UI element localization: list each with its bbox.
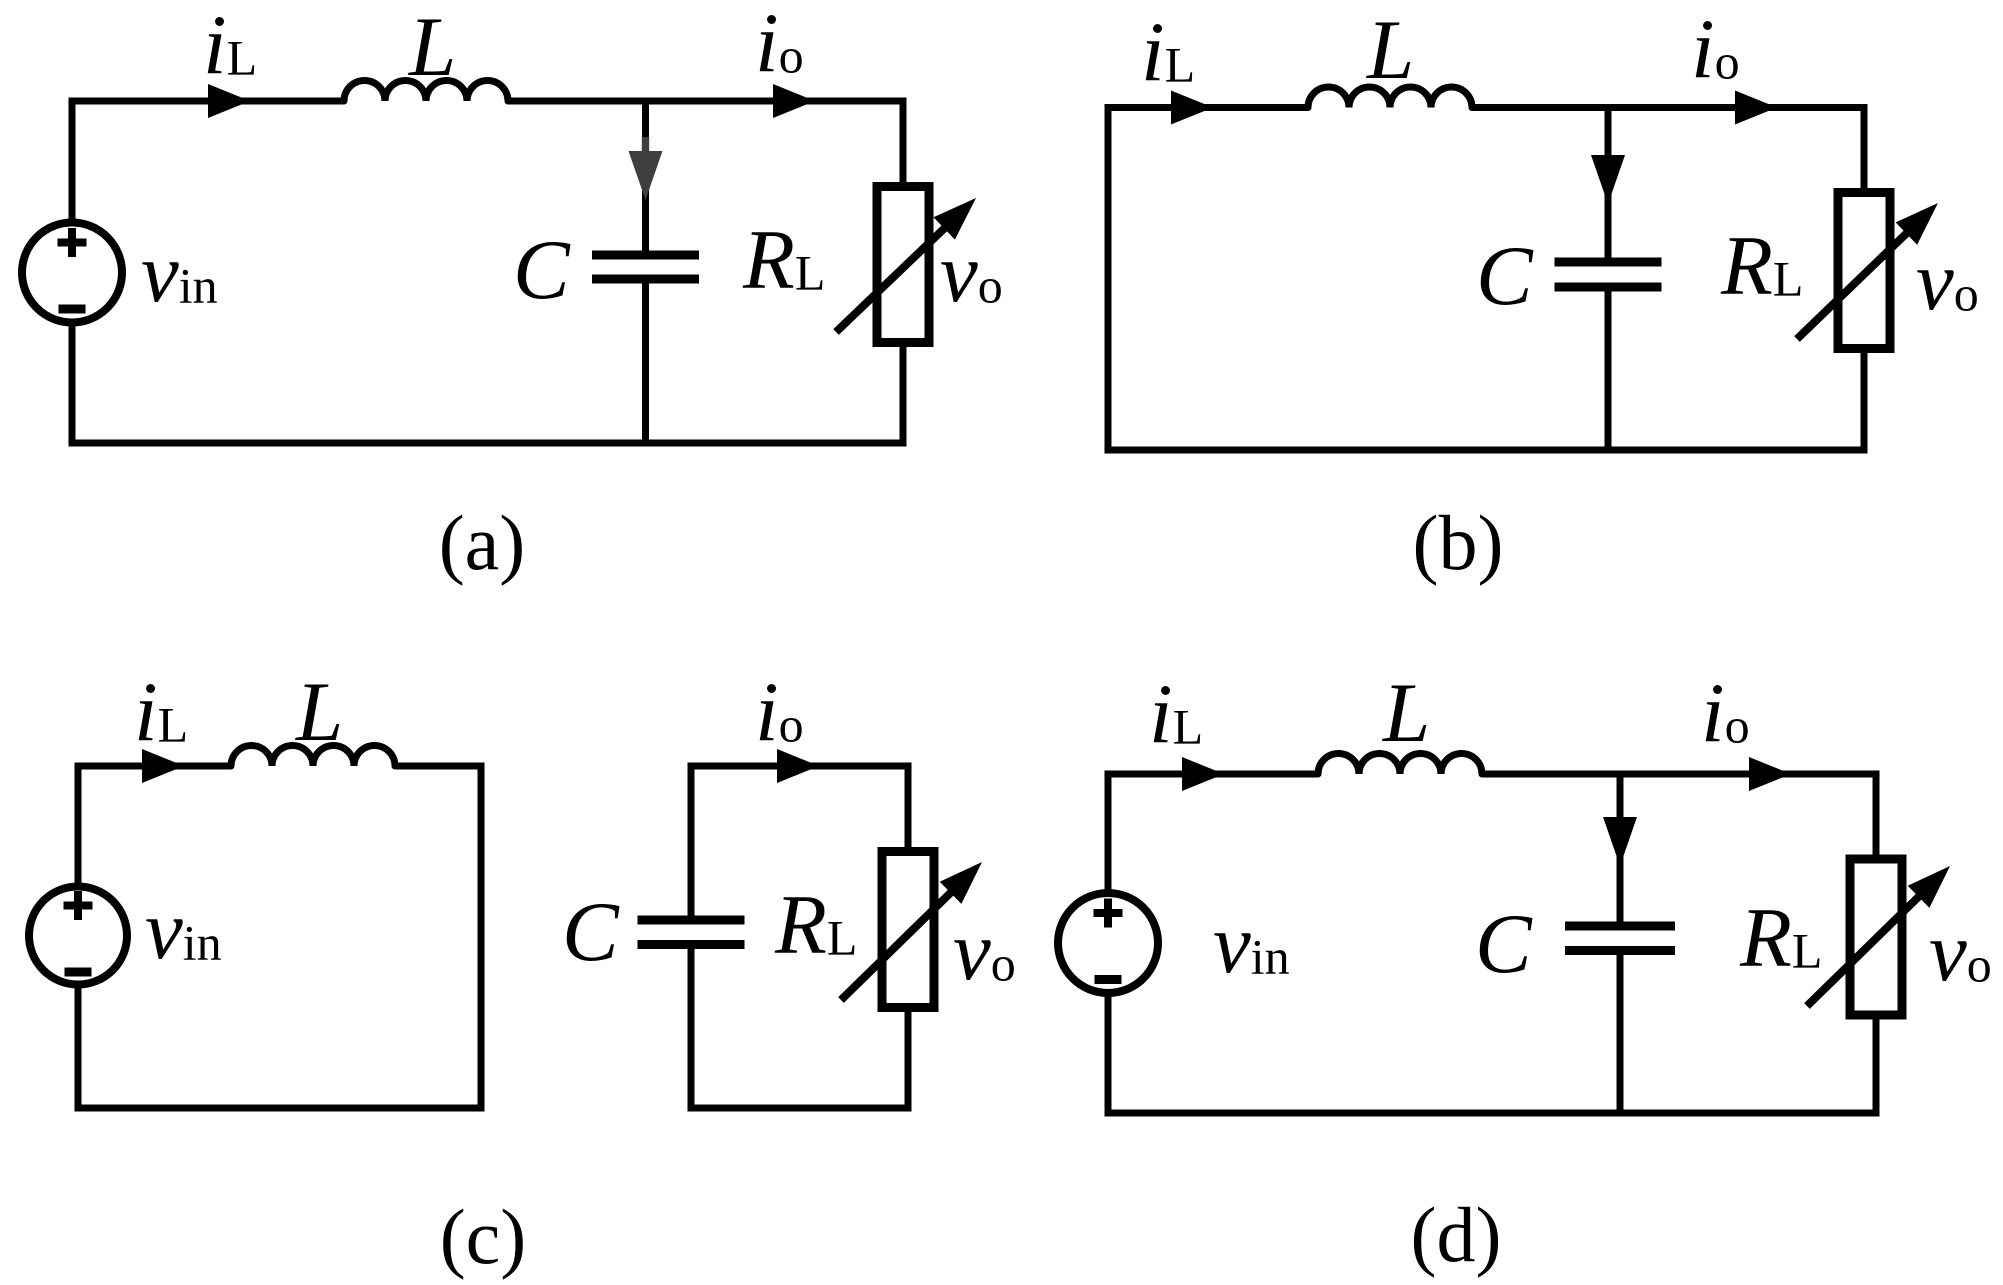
- wire: (b) right wire upper: [1861, 104, 1868, 191]
- resistor RL (b): [1838, 193, 1890, 349]
- wire: (a) capacitor branch lower: [642, 284, 649, 444]
- wire: (a) top wire right segment: [508, 98, 907, 105]
- wire: (d) capacitor branch lower: [1617, 955, 1624, 1113]
- wire: (a) left wire lower: [69, 323, 76, 447]
- svg-text:C: C: [513, 223, 571, 317]
- svg-text:C: C: [562, 885, 620, 979]
- arrow iL (a): [208, 84, 250, 118]
- arrow io (b): [1735, 91, 1777, 125]
- inductor L (c): [231, 746, 395, 767]
- wire: (a) right wire upper: [900, 98, 907, 186]
- resistor RL (c): [882, 852, 934, 1008]
- wire: (c) right-loop top wire: [688, 763, 912, 770]
- svg-text:L: L: [1366, 3, 1414, 97]
- wire: (b) left wire: [1105, 104, 1112, 454]
- svg-text:C: C: [1476, 229, 1534, 323]
- wire: (c) left-loop left wire upper: [75, 763, 82, 887]
- capacitor C (d): [1565, 922, 1675, 931]
- wire: (d) left wire upper: [1105, 771, 1112, 893]
- wire: (b) right wire lower: [1861, 350, 1868, 450]
- wire: (b) capacitor branch lower: [1605, 291, 1612, 450]
- wire: (d) top wire left segment: [1105, 771, 1319, 778]
- resistor RL (d): [1850, 859, 1902, 1015]
- wire: (c) right-loop left branch lower: [688, 949, 695, 1108]
- wire: (a) left wire upper: [69, 98, 76, 223]
- wire: (b) capacitor branch upper: [1605, 108, 1612, 259]
- wire: (d) capacitor branch upper: [1617, 774, 1624, 922]
- svg-text:(d): (d): [1411, 1191, 1502, 1278]
- svg-text:C: C: [1475, 897, 1533, 991]
- wire: (d) bottom wire: [1105, 1110, 1880, 1117]
- wire: (a) right wire lower: [900, 344, 907, 443]
- voltage source vin (c): [29, 887, 127, 985]
- inductor L (d): [1318, 753, 1482, 774]
- variable-resistor arrow (b): [1797, 221, 1919, 339]
- wire: (a) top wire left segment: [69, 98, 345, 105]
- variable-resistor arrow (c): [841, 881, 963, 1001]
- resistor RL (a): [877, 187, 929, 343]
- arrow io (d): [1749, 757, 1791, 791]
- arrow iL (c): [142, 749, 184, 783]
- arrow io (a): [773, 84, 815, 118]
- wire: (d) right wire lower: [1873, 1017, 1880, 1113]
- wire: (b) top wire right segment: [1472, 104, 1868, 111]
- wire: (b) bottom wire: [1105, 447, 1868, 454]
- wire: (c) right-loop bottom wire: [688, 1105, 912, 1112]
- capacitor C (b): [1555, 258, 1662, 267]
- wire: (c) left-loop top wire right segment: [395, 763, 485, 770]
- svg-text:L: L: [295, 665, 343, 759]
- wire: (d) right wire upper: [1873, 771, 1880, 858]
- current arrow into capacitor (a), gray: [642, 137, 649, 153]
- capacitor C (c): [638, 916, 745, 925]
- wire: (a) bottom wire: [69, 440, 907, 447]
- svg-text:(c): (c): [440, 1193, 527, 1280]
- variable-resistor arrow (a): [836, 216, 957, 332]
- current arrow into capacitor (d): [1603, 817, 1637, 866]
- inductor L (a): [344, 80, 508, 101]
- svg-text:L: L: [408, 0, 456, 94]
- current arrow into capacitor (b): [1591, 155, 1625, 204]
- arrow iL (d): [1182, 757, 1224, 791]
- wire: (a) capacitor branch upper: [642, 101, 649, 251]
- wire: (c) right-loop left branch upper: [688, 766, 695, 920]
- wire: (d) left wire lower: [1105, 994, 1112, 1117]
- svg-text:L: L: [1382, 666, 1430, 760]
- wire: (b) top wire left segment: [1105, 104, 1309, 111]
- wire: (c) right-loop right wire upper: [905, 763, 912, 850]
- wire: (d) top wire right segment: [1482, 771, 1880, 778]
- svg-text:(b): (b): [1413, 499, 1504, 586]
- wire: (c) left-loop top wire left segment: [75, 763, 232, 770]
- arrow iL (b): [1171, 91, 1213, 125]
- wire: (c) left-loop left wire lower: [75, 985, 82, 1112]
- capacitor C (a): [592, 251, 699, 260]
- voltage source vin (a): [22, 223, 122, 323]
- wire: (c) left-loop right wire: [478, 763, 485, 1112]
- svg-text:(a): (a): [439, 499, 526, 586]
- voltage source vin (d): [1058, 893, 1158, 993]
- inductor L (b): [1308, 87, 1472, 108]
- wire: (c) left-loop bottom wire: [75, 1105, 485, 1112]
- wire: (c) right-loop right wire lower: [905, 1010, 912, 1108]
- variable-resistor arrow (d): [1807, 885, 1931, 1007]
- arrow io (c): [777, 749, 819, 783]
